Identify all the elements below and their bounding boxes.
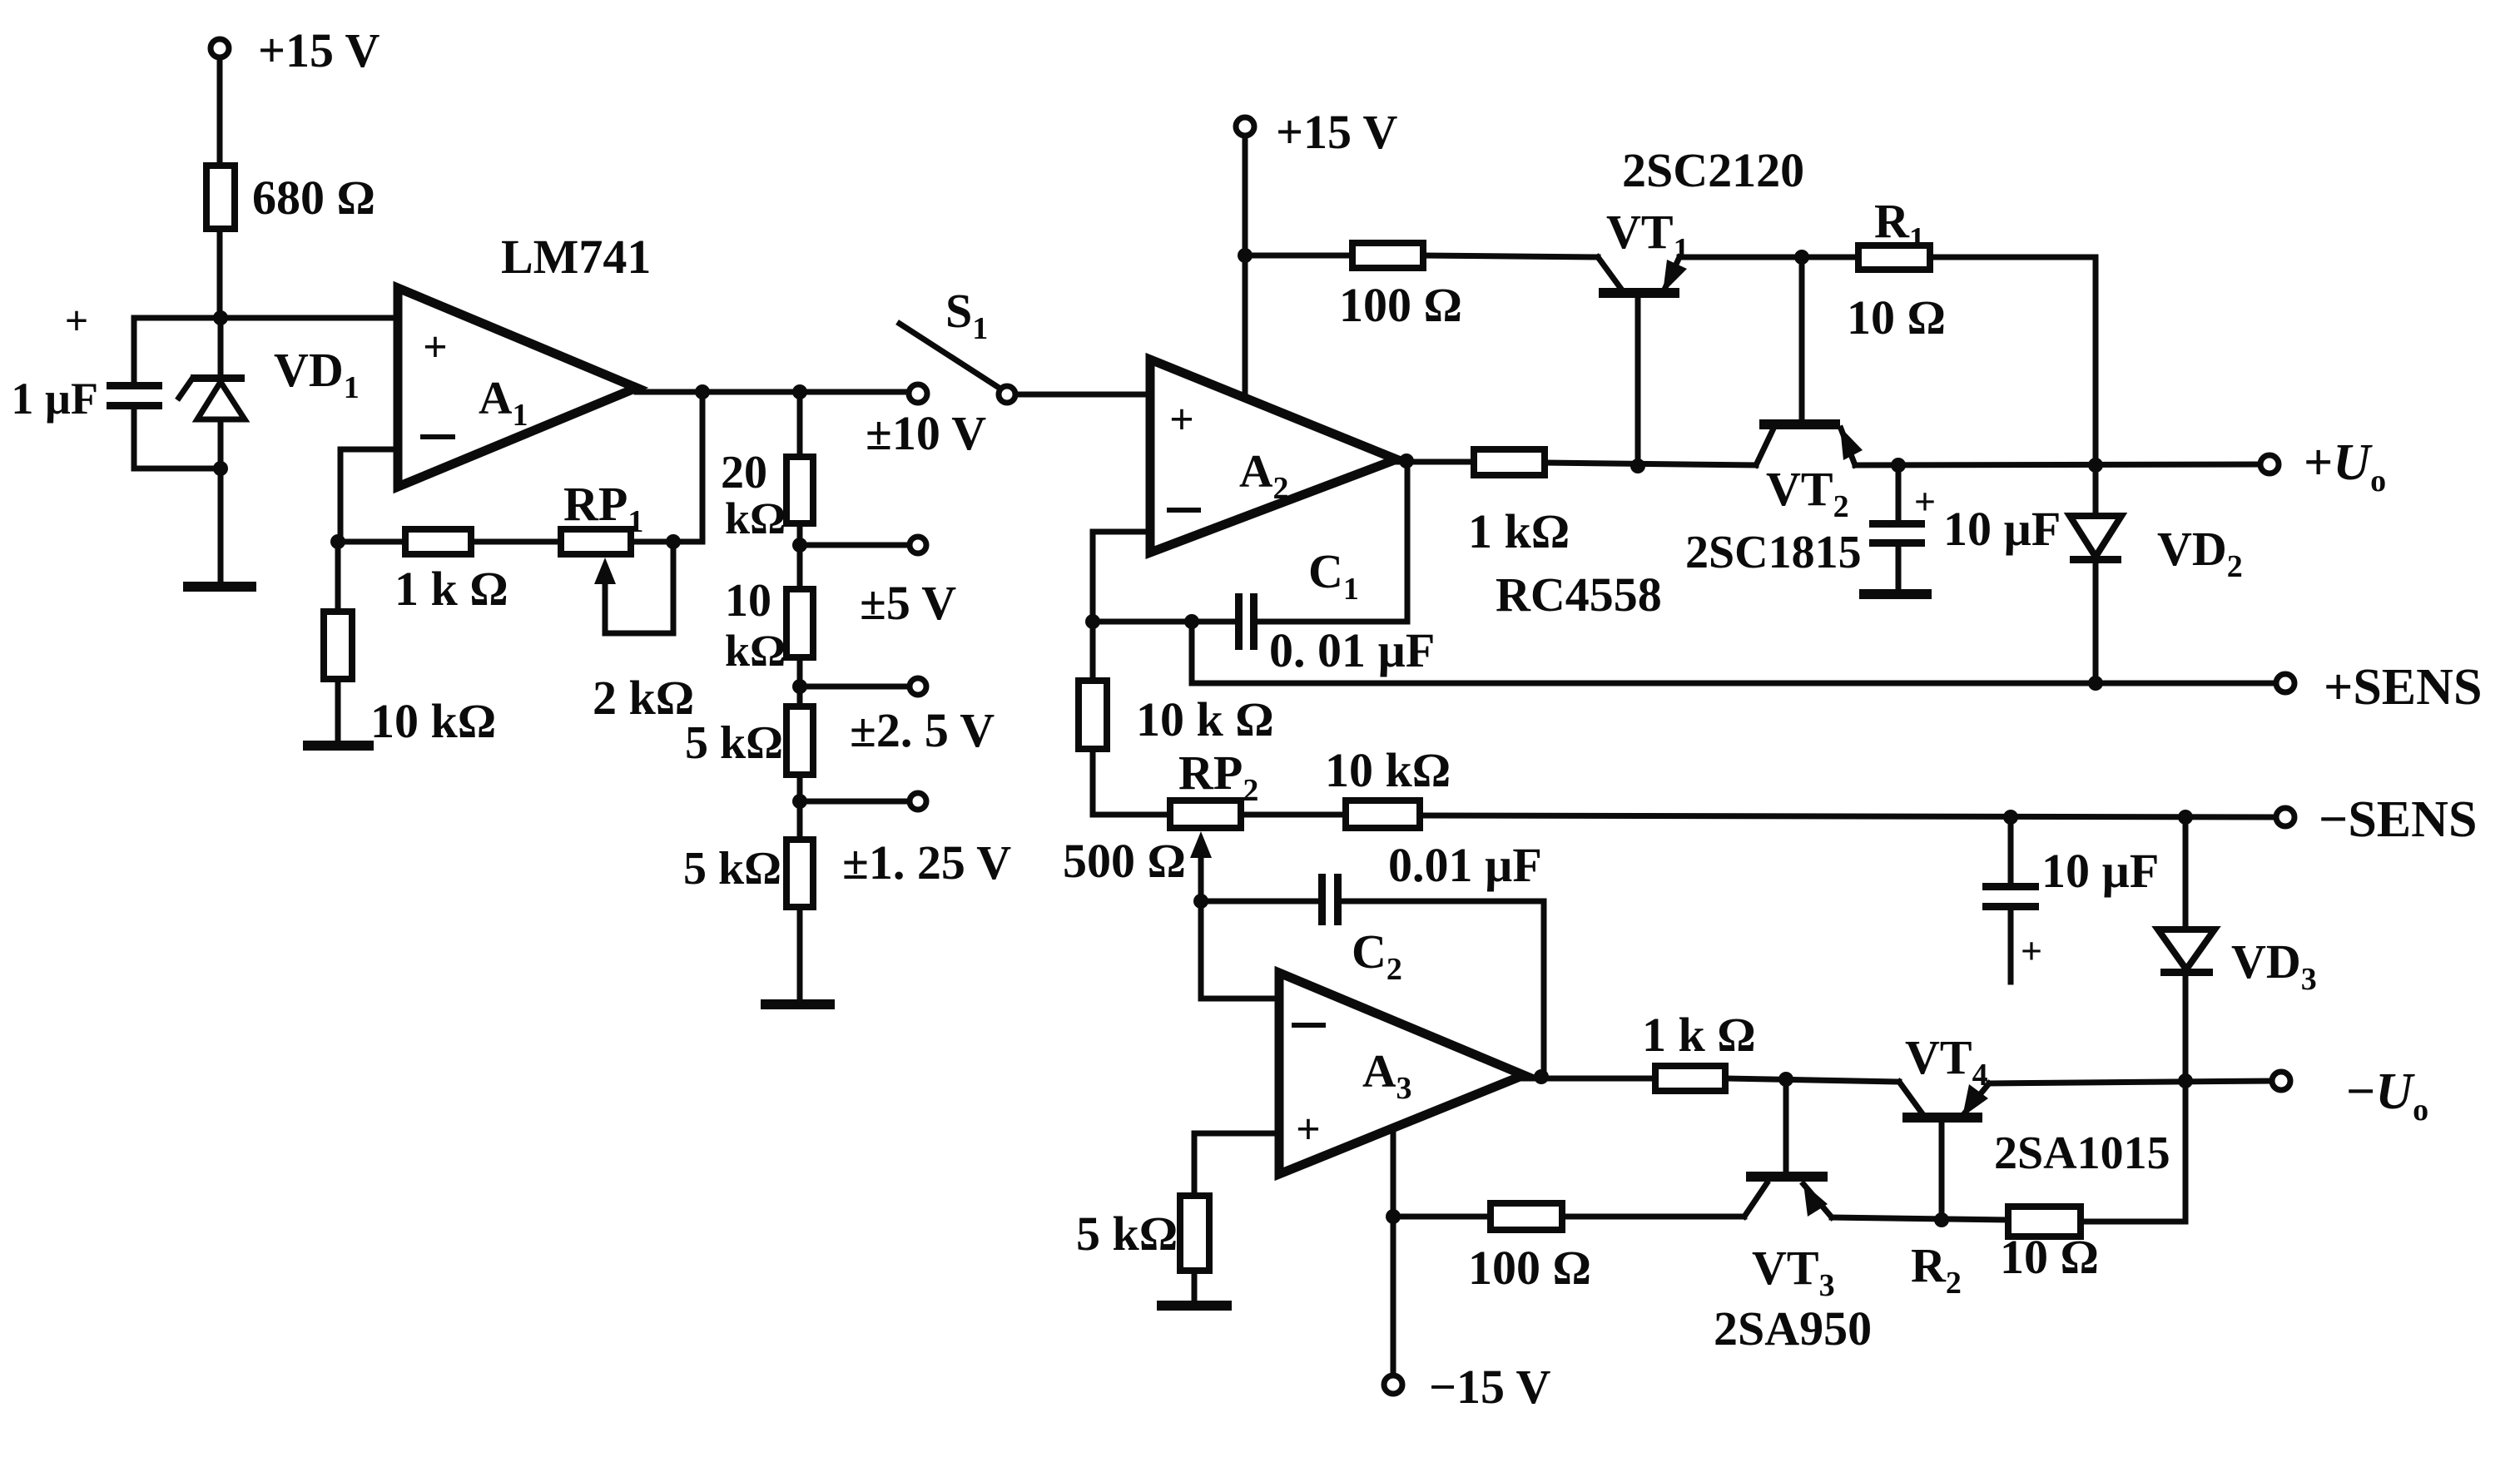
svg-text:±2. 5 V: ±2. 5 V: [850, 703, 995, 757]
wire to A1 noninverting input: [134, 315, 398, 321]
wire S1 to A2: [1015, 392, 1150, 398]
svg-text:+15 V: +15 V: [258, 23, 380, 77]
svg-text:10 k Ω: 10 k Ω: [1136, 692, 1274, 746]
node -SENS terminal: [2276, 791, 2477, 848]
wire: [631, 539, 702, 545]
wire A2 inverting input: [1093, 532, 1150, 622]
wire bottom rail: [1393, 1214, 1491, 1220]
svg-text:5 kΩ: 5 kΩ: [683, 843, 781, 895]
node junction: [792, 384, 807, 399]
wire: [1832, 1217, 2008, 1220]
resistor R2 10 ohm: [1911, 1207, 2099, 1301]
svg-text:1 k Ω: 1 k Ω: [1642, 1008, 1756, 1062]
node +SENS terminal: [2276, 659, 2482, 716]
wire: [1545, 463, 1756, 465]
resistor 5 kohm (divider upper): [685, 706, 813, 775]
node junction: [1184, 614, 1199, 629]
wire: [1562, 1214, 1744, 1220]
svg-text:10 µF: 10 µF: [1943, 502, 2061, 556]
node junction: [2088, 458, 2103, 473]
wire tap: [800, 684, 909, 690]
capacitor 10uF (positive rail): [1869, 465, 2061, 593]
node junction: [2088, 676, 2103, 691]
potentiometer RP1 2 kohm: [561, 477, 694, 725]
svg-text:−15 V: −15 V: [1429, 1360, 1551, 1414]
svg-text:+15 V: +15 V: [1276, 105, 1398, 159]
resistor 100 ohm (VT1 collector): [1339, 243, 1462, 332]
node junction: [1891, 458, 1906, 473]
wire A3 noninverting input: [1194, 1133, 1279, 1196]
ground: [188, 582, 251, 592]
svg-text:±1. 25 V: ±1. 25 V: [842, 835, 1011, 890]
wire tap: [800, 543, 909, 548]
svg-text:20: 20: [721, 447, 767, 498]
resistor 10 kohm (A2 inverting leg): [1079, 622, 1274, 815]
wire: [471, 539, 561, 545]
node junction: [1934, 1212, 1949, 1227]
wire feedback line: [338, 539, 405, 545]
diode VD3: [2158, 817, 2317, 1080]
node tap junction: [792, 679, 807, 694]
wire: [1524, 1076, 1655, 1082]
svg-text:10 Ω: 10 Ω: [2000, 1230, 2099, 1284]
diode VD2: [2070, 465, 2243, 683]
ground: [1864, 589, 1927, 599]
transistor VT2 2SC1815: [1685, 419, 1863, 578]
svg-text:2SA950: 2SA950: [1714, 1301, 1872, 1356]
svg-text:LM741: LM741: [501, 230, 651, 284]
svg-text:+: +: [1914, 480, 1936, 523]
resistor 20 kohm: [721, 447, 813, 543]
node tap junction: [792, 538, 807, 553]
wire divider top: [797, 392, 803, 457]
wire: [1423, 255, 1598, 257]
capacitor C2 0.01uF (A3 feedback): [1193, 838, 1544, 1077]
node junction: [1085, 614, 1100, 629]
wire -Uo line: [1989, 1081, 2272, 1083]
resistor 5 kohm (A3 + leg): [1076, 1196, 1209, 1304]
svg-text:1 k Ω: 1 k Ω: [394, 562, 508, 616]
capacitor 1uF: [11, 297, 162, 468]
svg-text:10: 10: [725, 575, 771, 627]
svg-text:10 kΩ: 10 kΩ: [370, 694, 496, 748]
transistor VT4 2SA1015: [1899, 1030, 2170, 1220]
node junction: [666, 534, 681, 549]
resistor 680 ohm: [206, 166, 375, 229]
svg-text:RC4558: RC4558: [1496, 568, 1662, 622]
svg-text:2 kΩ: 2 kΩ: [593, 671, 694, 725]
wire VT3 base rise: [1783, 1079, 1789, 1174]
resistor 10 kohm (A1 ground leg): [324, 542, 496, 748]
node junction: [1386, 1209, 1401, 1224]
wire: [218, 468, 224, 587]
op-amp A1 LM741: [398, 230, 651, 487]
svg-text:100 Ω: 100 Ω: [1339, 278, 1462, 332]
transistor VT1 2SC2120: [1598, 143, 1804, 464]
transistor VT3 2SA950: [1714, 1172, 1872, 1356]
wire A1 inverting input: [340, 449, 398, 542]
capacitor 10uF (negative rail): [1982, 817, 2159, 982]
wire +Uo line: [1855, 464, 2260, 465]
svg-text:5 kΩ: 5 kΩ: [1076, 1207, 1178, 1261]
node junction: [330, 534, 345, 549]
node tap junction: [792, 794, 807, 809]
svg-text:10 µF: 10 µF: [2041, 844, 2159, 898]
svg-text:1 µF: 1 µF: [11, 374, 98, 424]
wire: [797, 523, 803, 589]
op-amp A2 RC4558: [1150, 359, 1662, 622]
svg-text:±10 V: ±10 V: [866, 406, 986, 460]
svg-text:0. 01 µF: 0. 01 µF: [1269, 623, 1435, 677]
svg-text:+: +: [1296, 1106, 1321, 1153]
wire +15V rail down to A2: [1243, 136, 1248, 397]
svg-text:100 Ω: 100 Ω: [1468, 1241, 1591, 1295]
node -Uo terminal: [2272, 1063, 2428, 1128]
ground: [308, 741, 369, 751]
svg-text:±5 V: ±5 V: [860, 576, 956, 630]
wire -SENS line: [1420, 815, 2276, 817]
resistor 5 kohm (divider lower): [683, 840, 813, 907]
op-amp A3: [1279, 973, 1524, 1174]
node +-2.5V terminal: [850, 678, 995, 757]
node +Uo terminal: [2260, 434, 2386, 498]
svg-text:+: +: [2021, 929, 2042, 972]
wire: [217, 229, 223, 318]
svg-text:2SC1815: 2SC1815: [1685, 527, 1862, 578]
resistor 1 kohm (VT4 drive): [1642, 1008, 1756, 1091]
node junction: [2178, 1073, 2193, 1088]
wire: [217, 57, 223, 166]
wire: [1093, 619, 1192, 625]
wire: [797, 775, 803, 840]
ground: [1162, 1301, 1227, 1311]
resistor 10 kohm (divider): [725, 575, 813, 676]
potentiometer RP2 500 ohm: [1063, 746, 1258, 901]
svg-text:2SC2120: 2SC2120: [1622, 143, 1804, 197]
wire +SENS line: [1192, 681, 2276, 686]
wire A1 output: [637, 389, 909, 395]
resistor R1 10 ohm: [1847, 194, 1946, 344]
ground: [766, 999, 830, 1009]
svg-text:−SENS: −SENS: [2319, 791, 2477, 848]
node junction: [1238, 248, 1253, 263]
node junction: [1794, 250, 1809, 265]
svg-text:500 Ω: 500 Ω: [1063, 834, 1186, 888]
wire: [1241, 812, 1346, 818]
wire: [1725, 1078, 1899, 1082]
wire: [1245, 253, 1352, 259]
node A2 output junction: [1399, 454, 1414, 468]
resistor 1 kohm (A1 feedback): [394, 529, 508, 616]
node junction: [213, 461, 228, 476]
node junction: [213, 310, 228, 325]
node +-5V terminal: [860, 537, 956, 630]
switch S1: [900, 284, 1015, 403]
wire: [134, 466, 221, 472]
svg-text:0.01 µF: 0.01 µF: [1388, 838, 1542, 892]
node +15V supply terminal (A2 branch): [1236, 105, 1398, 159]
svg-text:2SA1015: 2SA1015: [1994, 1128, 2170, 1179]
wire: [1802, 255, 1858, 260]
zener diode VD1: [179, 318, 360, 468]
resistor 100 ohm (VT3 collector): [1468, 1203, 1591, 1295]
svg-text:+SENS: +SENS: [2324, 659, 2482, 716]
svg-text:1 kΩ: 1 kΩ: [1468, 504, 1570, 558]
wire: [1679, 255, 1802, 260]
node junction: [1778, 1072, 1793, 1087]
svg-text:kΩ: kΩ: [725, 626, 786, 676]
node +15V supply terminal (A1 branch): [211, 23, 380, 77]
svg-text:5 kΩ: 5 kΩ: [685, 717, 783, 769]
svg-text:10 Ω: 10 Ω: [1847, 290, 1946, 344]
node A3 output junction: [1534, 1069, 1549, 1084]
wire tap: [800, 799, 909, 805]
svg-text:+: +: [65, 297, 89, 344]
wire: [797, 907, 803, 1003]
node +-1.25V terminal: [842, 793, 1011, 890]
svg-text:+: +: [423, 324, 448, 371]
wire +SENS feedback drop: [1189, 622, 1195, 683]
wire: [1930, 257, 2096, 465]
resistor 10 kohm (sense line): [1325, 743, 1451, 828]
svg-text:680 Ω: 680 Ω: [252, 171, 375, 225]
wire: [797, 657, 803, 706]
node junction: [2178, 810, 2193, 825]
wire feedback drop: [700, 392, 706, 542]
node junction: [1630, 458, 1645, 473]
capacitor C1 0.01uF (A2 feedback): [1192, 461, 1435, 677]
svg-text:10 kΩ: 10 kΩ: [1325, 743, 1451, 797]
svg-text:kΩ: kΩ: [725, 493, 786, 543]
node -15V terminal: [1384, 1360, 1551, 1414]
svg-text:+: +: [1169, 396, 1194, 444]
node junction: [695, 384, 710, 399]
wire VT2 base drop: [1799, 257, 1805, 422]
resistor 1 kohm (VT1 base drive): [1468, 449, 1570, 558]
wire A3 inverting input: [1201, 901, 1279, 999]
wire A3 negative supply: [1391, 1129, 1396, 1375]
node +-10V terminal: [866, 384, 986, 460]
wire: [2081, 1081, 2185, 1222]
node junction: [2003, 810, 2018, 825]
wire: [1396, 459, 1474, 465]
